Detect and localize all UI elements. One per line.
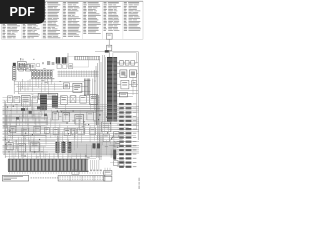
wire bus mesh verticals bbox=[5, 95, 114, 158]
wire group right of center bbox=[93, 60, 101, 160]
connector E2 vertical bbox=[62, 142, 66, 153]
wire group center dark verticals bbox=[84, 79, 90, 96]
connector E1 vertical bbox=[56, 142, 60, 153]
connector pair CN12 bbox=[117, 132, 137, 134]
doc number vertical bbox=[139, 178, 140, 189]
fuse F5 bbox=[44, 71, 46, 78]
connector G2 bbox=[97, 144, 100, 149]
module C6 bbox=[78, 128, 85, 135]
connector pair CN7 bbox=[109, 111, 137, 113]
connector pair CN20 bbox=[117, 166, 137, 168]
connector pair CN19 bbox=[110, 162, 136, 164]
plug connector CN4 bbox=[119, 93, 127, 97]
module A4 bbox=[32, 96, 37, 103]
connector E3 vertical bbox=[68, 142, 72, 153]
module F4 bbox=[114, 161, 118, 166]
resistor box R8 bbox=[121, 80, 129, 89]
fuse legend label box bbox=[38, 94, 58, 100]
module C4 bbox=[53, 128, 59, 135]
fuse bus top bbox=[31, 69, 54, 71]
relay R5 bbox=[63, 83, 69, 89]
fuse F7 bbox=[50, 71, 52, 78]
wire bus battery harness bbox=[15, 79, 91, 95]
connector pair CN14 bbox=[117, 141, 137, 143]
connector pair CN11 bbox=[107, 128, 136, 130]
fuse F3 bbox=[38, 71, 40, 78]
fuse bus bottom bbox=[31, 78, 54, 80]
controller outline U1 bbox=[113, 53, 136, 63]
module A2 bbox=[14, 96, 20, 102]
marks above title strip bbox=[90, 170, 102, 172]
monitor connector CN20 bbox=[40, 95, 47, 111]
wire top feeder bbox=[95, 51, 138, 53]
module D11 bbox=[18, 144, 25, 152]
connector pair CN13 bbox=[112, 136, 136, 138]
reference label specks bbox=[10, 60, 127, 157]
wire header stub bbox=[67, 53, 69, 63]
connector pair CN9 bbox=[108, 120, 136, 122]
terminal id row bbox=[9, 172, 104, 175]
wires right area lower bbox=[117, 78, 138, 97]
relay box K1 bbox=[19, 65, 24, 71]
legend header row bbox=[3, 2, 140, 3]
tall connector block CN2 bbox=[113, 57, 117, 121]
module B2 bbox=[63, 113, 70, 122]
wire bus into connector bbox=[103, 55, 106, 122]
wires to right bus bbox=[117, 66, 138, 90]
connector pair CN17 bbox=[110, 153, 137, 155]
tall connector block CN1 bbox=[107, 57, 113, 121]
wire bus cab harness bbox=[58, 71, 99, 78]
connector pair CN8 bbox=[117, 116, 137, 118]
title block strip bbox=[58, 176, 105, 182]
module A1 bbox=[8, 96, 13, 103]
relay R6 bbox=[120, 70, 127, 77]
wire bundle to connector column bbox=[72, 142, 117, 156]
module C1 bbox=[10, 127, 16, 133]
junction nodes bbox=[13, 106, 119, 157]
right vertical bus bbox=[137, 52, 139, 140]
fuse F6 bbox=[47, 71, 49, 78]
key switch SW1 bbox=[107, 45, 112, 50]
timer module M1 bbox=[73, 83, 82, 92]
connector CN32 bbox=[104, 176, 112, 181]
wire stubs bottom-right bbox=[105, 168, 110, 176]
relay R7 bbox=[130, 70, 137, 77]
wire legend-to-keyswitch bbox=[108, 39, 110, 45]
relay R2 bbox=[28, 64, 35, 70]
diode block cluster bbox=[57, 64, 73, 69]
module C7 bbox=[90, 128, 96, 135]
fuse F2 bbox=[35, 71, 37, 78]
connector pair CN6 bbox=[117, 107, 137, 109]
module D10 bbox=[7, 143, 14, 150]
note dashes bbox=[31, 177, 59, 180]
module A6 bbox=[61, 96, 68, 105]
relay box K2 bbox=[25, 65, 30, 71]
module F5 bbox=[119, 161, 124, 166]
legend table frame bbox=[2, 1, 143, 39]
svg-text:PDF: PDF bbox=[9, 5, 35, 19]
fuse F1 bbox=[32, 71, 34, 78]
relay R4 bbox=[62, 57, 67, 63]
module A7 crossed bbox=[70, 96, 76, 103]
fuse stubs bbox=[33, 70, 52, 79]
control unit outline bbox=[68, 57, 89, 68]
connector pair CN10 bbox=[117, 124, 137, 126]
connector bar F3 bbox=[113, 150, 116, 160]
relay R1 bbox=[17, 62, 26, 70]
module A9 bbox=[90, 95, 98, 105]
module A3 bbox=[22, 96, 31, 107]
terminal strip tail bbox=[91, 160, 99, 170]
connector CN30 bbox=[72, 170, 79, 174]
connector pair CN16 bbox=[117, 149, 137, 151]
connector chain CN3 bbox=[117, 61, 138, 66]
module C9 bbox=[71, 129, 76, 135]
module A8 bbox=[80, 96, 86, 103]
junction cluster blobs bbox=[16, 107, 47, 120]
terminal strip TB1 bbox=[8, 159, 89, 171]
pin header X1 bbox=[75, 56, 100, 60]
diode D1 bbox=[37, 64, 40, 67]
module C3 bbox=[34, 126, 41, 134]
module D12 bbox=[31, 142, 39, 152]
resistor marks bbox=[20, 58, 35, 60]
module C8 bbox=[44, 128, 49, 134]
module C2 bbox=[22, 128, 28, 136]
module A5 bbox=[52, 96, 58, 108]
PDF badge bbox=[0, 0, 45, 24]
fusible link strip FL1 bbox=[13, 63, 16, 80]
wire keyswitch down bbox=[108, 51, 110, 57]
module C5 bbox=[64, 129, 71, 136]
wire bus main harness horizontals bbox=[3, 98, 140, 159]
fuse link box F0 bbox=[106, 33, 112, 39]
connector pair CN15 bbox=[109, 145, 136, 147]
module B3 bbox=[75, 115, 84, 124]
module B5 bbox=[102, 122, 111, 132]
note box left bbox=[2, 176, 28, 182]
legend column separators bbox=[22, 1, 123, 39]
legend text rows bbox=[3, 5, 141, 39]
relay R3 bbox=[56, 57, 60, 63]
connector pair CN5 bbox=[109, 103, 136, 105]
left edge bus verticals bbox=[4, 100, 11, 155]
wire drops into terminal strip bbox=[10, 154, 86, 160]
module B4 bbox=[87, 112, 94, 120]
junction node J0 bbox=[105, 50, 109, 52]
resistor box R9 bbox=[132, 81, 137, 87]
module B1 bbox=[53, 112, 59, 120]
connector CN31 bbox=[104, 171, 112, 176]
wire fuse feed bbox=[13, 80, 15, 94]
connector pair CN18 bbox=[117, 157, 137, 159]
connector G1 bbox=[93, 144, 96, 149]
marks above fuses bbox=[42, 61, 54, 65]
fuse F4 bbox=[41, 71, 43, 78]
module F2 bbox=[114, 141, 120, 147]
module B6 bbox=[103, 134, 109, 142]
module F1 below CN1 bbox=[114, 132, 119, 137]
